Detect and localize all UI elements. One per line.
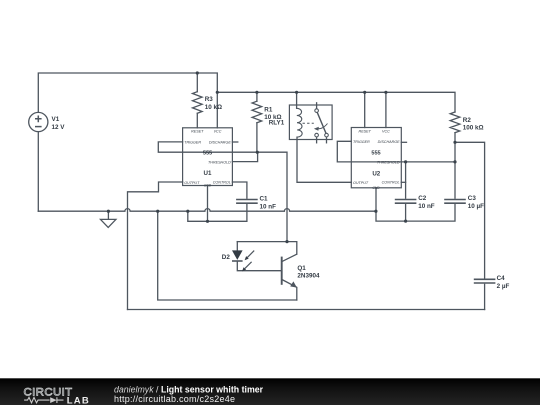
svg-text:R3: R3	[205, 96, 214, 103]
svg-text:Q1: Q1	[297, 265, 306, 272]
svg-text:TRIGGER: TRIGGER	[184, 141, 201, 145]
svg-text:THRESHOLD: THRESHOLD	[377, 161, 400, 165]
svg-text:VCC: VCC	[382, 129, 390, 133]
svg-text:RLY1: RLY1	[269, 120, 285, 127]
svg-text:R2: R2	[463, 117, 472, 124]
svg-text:100 kΩ: 100 kΩ	[463, 125, 484, 132]
svg-text:555: 555	[203, 151, 212, 157]
svg-text:OUTPUT: OUTPUT	[353, 181, 369, 185]
svg-text:danielmyk / Light sensor whith: danielmyk / Light sensor whith timer	[114, 385, 264, 395]
svg-text:C1: C1	[260, 196, 269, 203]
svg-text:10 kΩ: 10 kΩ	[205, 104, 222, 111]
svg-text:D2: D2	[222, 254, 231, 261]
svg-text:V1: V1	[52, 116, 60, 123]
svg-text:DISCHARGE: DISCHARGE	[378, 140, 400, 144]
svg-text:TRIGGER: TRIGGER	[353, 140, 370, 144]
svg-text:2 µF: 2 µF	[497, 283, 510, 290]
svg-text:THRESHOLD: THRESHOLD	[208, 161, 231, 165]
svg-text:RESET: RESET	[191, 130, 204, 134]
svg-text:VCC: VCC	[214, 130, 222, 134]
svg-text:10 nF: 10 nF	[418, 203, 435, 210]
svg-text:GND: GND	[372, 186, 380, 190]
svg-text:2N3904: 2N3904	[297, 272, 320, 279]
svg-text:LAB: LAB	[67, 395, 90, 405]
svg-text:CIRCUIT: CIRCUIT	[24, 387, 73, 399]
svg-text:CONTROL: CONTROL	[213, 180, 231, 184]
svg-text:OUTPUT: OUTPUT	[184, 181, 200, 185]
svg-text:U1: U1	[204, 170, 212, 177]
svg-text:C3: C3	[468, 195, 477, 202]
svg-text:C2: C2	[418, 195, 427, 202]
svg-text:555: 555	[371, 151, 380, 157]
svg-text:RESET: RESET	[359, 129, 372, 133]
svg-text:U2: U2	[372, 170, 380, 177]
svg-text:http://circuitlab.com/c2s2e4e: http://circuitlab.com/c2s2e4e	[114, 394, 235, 404]
svg-text:DISCHARGE: DISCHARGE	[209, 141, 231, 145]
svg-text:10 µF: 10 µF	[468, 203, 484, 210]
svg-text:GND: GND	[204, 184, 212, 188]
svg-text:R1: R1	[264, 106, 273, 113]
svg-text:C4: C4	[497, 275, 506, 282]
svg-text:CONTROL: CONTROL	[382, 181, 400, 185]
svg-text:12 V: 12 V	[52, 124, 66, 131]
svg-text:10 nF: 10 nF	[260, 203, 277, 210]
